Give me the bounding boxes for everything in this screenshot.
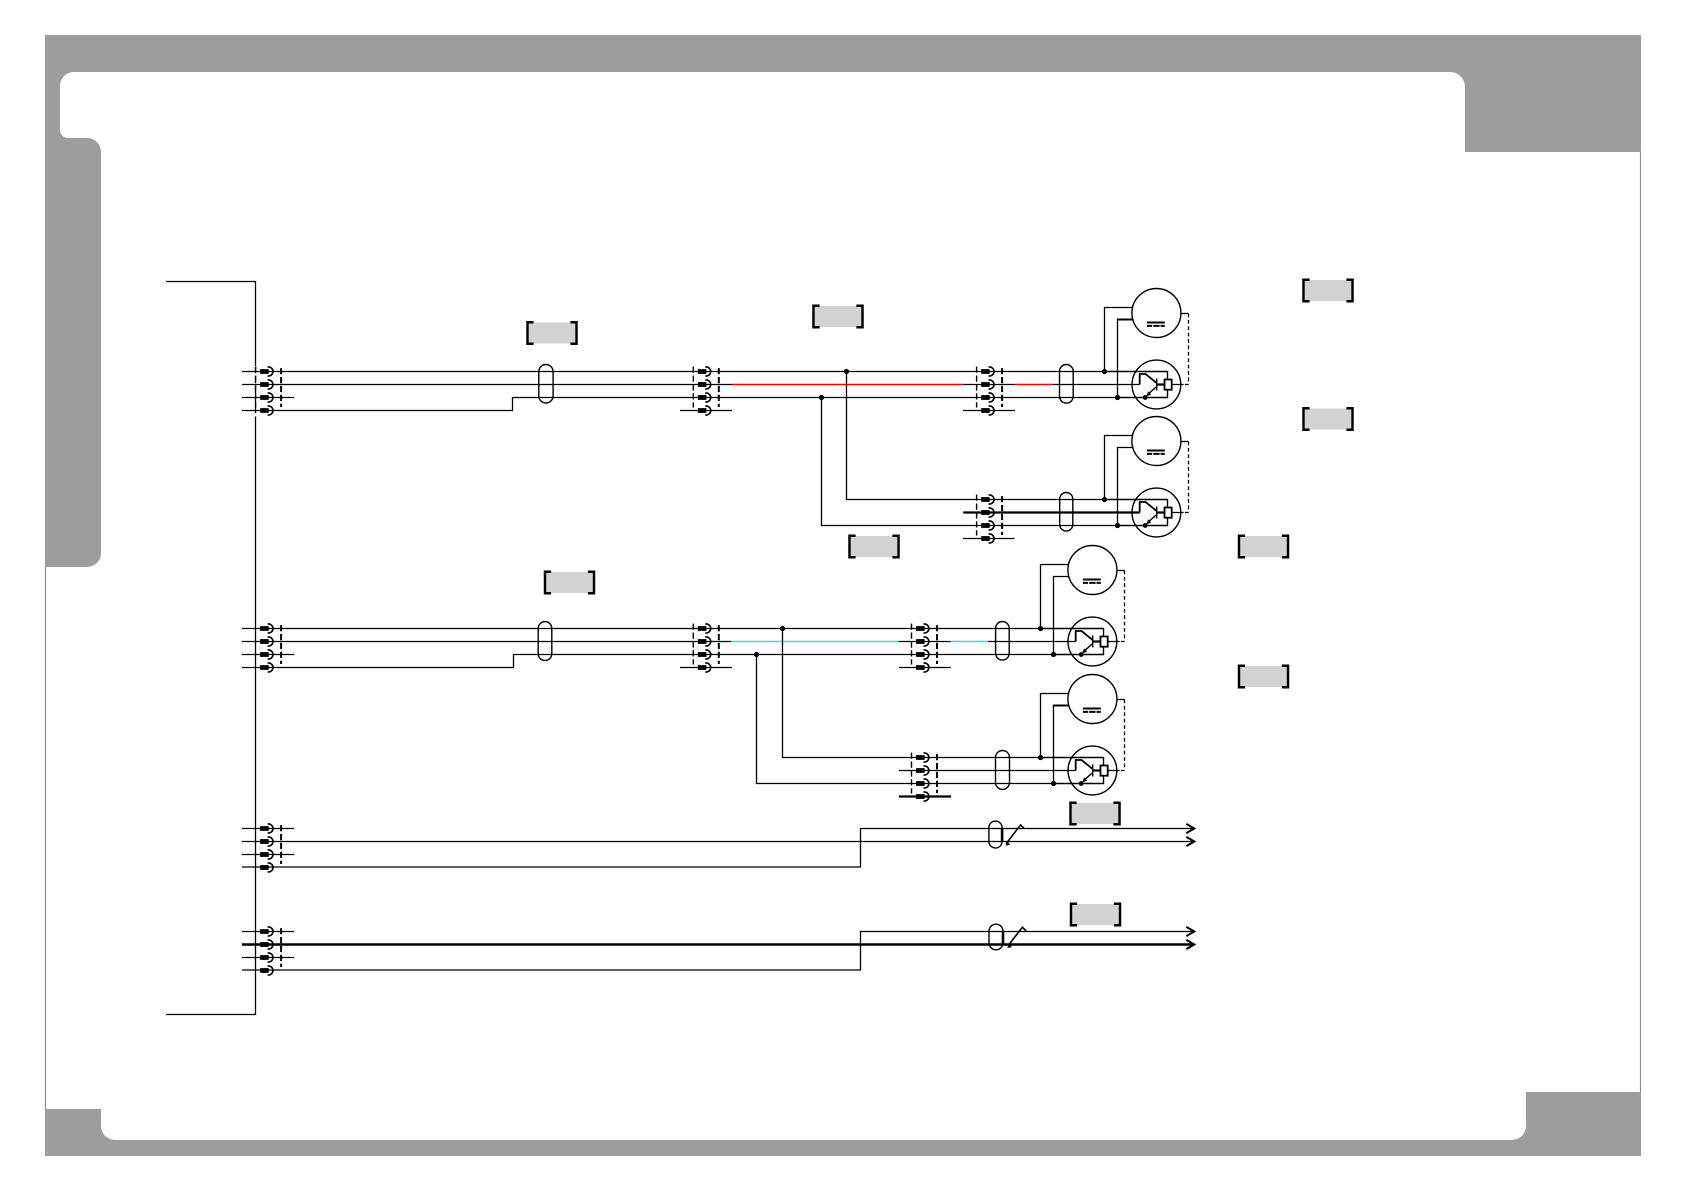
- red wire segment A (row 2): [732, 384, 963, 386]
- cable clamp sleeve F7: [989, 821, 1002, 848]
- junction node 2A (row1): [1102, 497, 1107, 502]
- wire junction 4A to lamp 4 terminal 1: [1041, 694, 1070, 758]
- terminal square J2: [1165, 508, 1172, 518]
- cable clamp sleeve F2: [1060, 365, 1074, 404]
- junction node 1B (row3): [1115, 395, 1120, 400]
- wire junction 3B to lamp 3 terminal 2: [1053, 577, 1070, 655]
- lamp socket J4: [1068, 746, 1117, 795]
- connector lamp harness connector CM4: [912, 753, 938, 801]
- wire row2 to socket J4: [899, 770, 1076, 772]
- cyan wire segment A (row 2): [731, 641, 898, 643]
- cable clamp sleeve F4: [538, 622, 552, 661]
- wire J3 return output: [1108, 641, 1125, 643]
- wire junction row3 to assembly 4: [754, 652, 1054, 784]
- connector CN4 (main unit, section 4): [260, 927, 281, 975]
- red wire segment B (row 2): [1015, 384, 1053, 386]
- wire CN2-2 (row 2) segment c: [988, 641, 1076, 643]
- wire CN3-3 stub: [242, 854, 294, 856]
- wire socket J1 loop: [1105, 372, 1168, 398]
- wire plug tip to terminal square J2 (thick): [1157, 511, 1165, 513]
- dashed return wire lamp 3: [1117, 571, 1125, 642]
- wire plug tip to terminal square J4 (thick): [1093, 769, 1101, 771]
- wire CN4-3 stub: [242, 957, 294, 959]
- dashed return wire lamp 2: [1181, 442, 1189, 513]
- junction node 4B (row3): [1051, 781, 1056, 786]
- label box 3 (blank callout): [1304, 280, 1353, 301]
- wire junction 1A to lamp 1 terminal 1: [1105, 308, 1134, 372]
- wire stub row4 at lamp connector (assembly 2): [963, 538, 1015, 540]
- wire plug tip to terminal square J1 (thick): [1157, 383, 1165, 385]
- wire CN4-1 stub: [242, 931, 294, 933]
- label box 10 (blank callout): [1071, 904, 1120, 925]
- wire CN1-2 (row 2) segment b: [963, 384, 1015, 386]
- thick wire CN4-2 to output arrow: [242, 943, 1193, 945]
- output arrow 2 (section 4): [1186, 940, 1194, 949]
- junction node 3B (row3): [1051, 652, 1056, 657]
- label box 2 (blank callout): [814, 306, 863, 327]
- wire stub row4 at lamp connector (section 2): [899, 667, 951, 669]
- wire CN2-1 (row 1): [242, 628, 1041, 630]
- lamp socket J2: [1132, 488, 1181, 537]
- connector CN2 (main unit, section 2): [260, 624, 281, 672]
- wire CN1-3 stub (row 3): [242, 397, 294, 399]
- wire CN2-2 (row 2) segment a: [242, 641, 731, 643]
- junction node 1A (row1): [1102, 369, 1107, 374]
- wire socket J2 loop: [1105, 500, 1168, 526]
- wire CN1-2 (row 2) segment c: [1053, 384, 1140, 386]
- connector CN1 (main unit, section 1): [256, 367, 282, 415]
- terminal square J4: [1101, 766, 1108, 776]
- wire CN3-2 to output arrow: [242, 841, 1193, 843]
- plug contact symbol in J2: [1140, 502, 1157, 528]
- wire J4 return output: [1108, 770, 1125, 772]
- label box 7 (blank callout): [1239, 536, 1288, 557]
- wire junction row1 to assembly 2: [844, 369, 1105, 500]
- wire socket J3 loop: [1041, 629, 1104, 655]
- wire CN2-3 stub (row 3): [242, 654, 294, 656]
- wire plug tip to terminal square J3 (thick): [1093, 640, 1101, 642]
- cable clamp sleeve F3: [1060, 493, 1073, 532]
- lamp socket J1: [1132, 360, 1181, 409]
- crossing slash mark (section 4): [1007, 927, 1026, 948]
- wire stub row4 at lamp connector (section 1): [963, 410, 1015, 412]
- label box 1 (blank callout): [528, 322, 577, 343]
- wire junction 3A to lamp 3 terminal 1: [1041, 565, 1070, 629]
- lamp L3: [1068, 546, 1117, 595]
- thick wire row2 to socket J2: [963, 511, 1139, 513]
- cable clamp sleeve F5: [996, 622, 1010, 661]
- wire socket J4 loop: [1041, 758, 1104, 784]
- cable clamp sleeve F8: [989, 924, 1003, 950]
- cable clamp sleeve F1: [539, 365, 553, 404]
- wire J1 return output: [1172, 384, 1189, 386]
- wire J2 return output: [1172, 512, 1189, 514]
- label box 4 (blank callout): [1304, 408, 1353, 429]
- wire CN3-4 with step up to output: [242, 829, 1193, 868]
- junction node 2B (row3): [1115, 523, 1120, 528]
- output arrow 2 (section 3): [1186, 837, 1194, 846]
- wire CN1-1 to lamp circuit (row 1): [242, 371, 1105, 373]
- label box 6 (blank callout): [545, 572, 594, 593]
- crossing slash mark (section 3): [1006, 825, 1025, 846]
- terminal square J3: [1101, 637, 1108, 647]
- wire junction 2B to lamp 2 terminal 2: [1117, 448, 1134, 526]
- lamp L2: [1132, 417, 1181, 466]
- lamp L4: [1068, 675, 1117, 724]
- wire CN3-1 stub: [242, 828, 294, 830]
- wire CN4-4 with step up to output: [242, 932, 1193, 971]
- wire junction row1 to assembly 4: [780, 626, 1041, 758]
- wire junction row3 to assembly 2: [819, 395, 1118, 526]
- wire stub row4 at mid connector (section 1): [680, 410, 732, 412]
- connector lamp harness connector CM1b: [977, 367, 1003, 415]
- junction node 4A (row1): [1038, 755, 1043, 760]
- wire CN1-2 (row 2) segment a: [242, 384, 732, 386]
- label box 8 (blank callout): [1239, 666, 1288, 687]
- thick wire stub row4 (assembly 4): [899, 795, 951, 797]
- label box 9 (blank callout): [1071, 803, 1120, 824]
- plug contact symbol in J1: [1140, 374, 1157, 400]
- output arrow 1 (section 3): [1186, 824, 1194, 833]
- wire CN2-4 with step up to row 3: [242, 655, 1054, 668]
- connector CN3 (main unit, section 3): [260, 824, 281, 872]
- wire CN1-4 with step up to row 3: [242, 398, 1118, 411]
- label box 5 (blank callout): [850, 536, 899, 557]
- plug contact symbol in J3: [1076, 631, 1093, 657]
- connector lamp harness connector CM2: [977, 495, 1003, 543]
- plug contact symbol in J4: [1076, 760, 1093, 786]
- wire junction 2A to lamp 2 terminal 1: [1105, 436, 1134, 500]
- wire junction 4B to lamp 4 terminal 2: [1053, 706, 1070, 784]
- connector inline connector CM1a: [693, 367, 719, 415]
- output arrow 1 (section 4): [1186, 927, 1194, 936]
- cable clamp sleeve F6: [996, 751, 1010, 790]
- terminal square J1: [1165, 380, 1172, 390]
- connector inline connector CM3a: [693, 624, 719, 672]
- wire stub row4 at mid connector (section 2): [680, 667, 732, 669]
- cyan wire segment B (row 2): [951, 641, 988, 643]
- connector lamp harness connector CM3b: [912, 624, 938, 672]
- main unit PCB outline (partial box): [166, 282, 256, 1015]
- junction node 3A (row1): [1038, 626, 1043, 631]
- lamp L1: [1132, 289, 1181, 338]
- wire junction 1B to lamp 1 terminal 2: [1117, 320, 1134, 398]
- wire CN2-2 (row 2) segment b: [899, 641, 951, 643]
- dashed return wire lamp 4: [1117, 700, 1125, 771]
- lamp socket J3: [1068, 617, 1117, 666]
- dashed return wire lamp 1: [1181, 314, 1189, 385]
